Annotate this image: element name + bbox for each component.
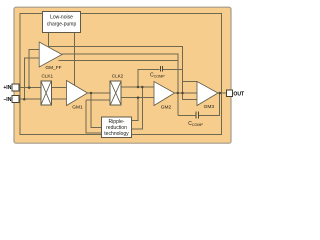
op-amp GM1 (67, 81, 88, 106)
wire CLK2 lower input (86, 100, 110, 133)
wire charge-pump to GM1 (74, 33, 76, 86)
capacitor C_COMP top plates (160, 66, 162, 72)
node junction top rail to ripple-reduction tap (141, 86, 144, 89)
node junction +IN rail to GM_FF riser (28, 86, 31, 89)
svg-text:GM_FF: GM_FF (45, 65, 61, 71)
svg-text:+IN: +IN (3, 85, 11, 91)
pin OUT (227, 90, 233, 97)
wire A charge-pump branch to GM3 lower input (49, 46, 198, 99)
wire GM_FF output to GM2 output node and lower comp cap (62, 54, 178, 115)
svg-text:Low-noise: Low-noise (50, 14, 73, 20)
svg-text:GM2: GM2 (161, 105, 172, 111)
svg-text:CLK1: CLK1 (42, 73, 54, 78)
ripple-reduction technology box (102, 117, 132, 137)
node junction bottom rail to ripple-reduction tap (137, 96, 140, 99)
chip outline (20, 13, 221, 134)
wire charge-pump to GM_FF (48, 33, 50, 47)
tan panel (14, 7, 231, 143)
wire branch to GM3 top corner (183, 81, 198, 83)
svg-text:charge-pump: charge-pump (47, 21, 77, 27)
chopper CLK2 (110, 73, 123, 105)
chopper CLK1 (41, 73, 54, 105)
wire riser -IN to GM_FF lower input (24, 58, 39, 99)
wire top rail to ripple box (130, 87, 143, 129)
svg-text:CLK2: CLK2 (112, 73, 124, 78)
wire GM1 output to CLK2 (88, 92, 111, 94)
wire top comp cap leads (138, 70, 183, 88)
wire GM_FF auxiliary output joining feedforward vertical (59, 59, 178, 61)
wire rail1 +IN to CLK1 (19, 87, 67, 89)
svg-text:–IN: –IN (3, 97, 11, 103)
wire riser +IN to GM_FF upper input (29, 50, 39, 88)
wire rail2 -IN to CLK1 (19, 98, 67, 100)
wire CLK2 to GM2 rail top (121, 86, 154, 88)
wire bottom comp cap leads (178, 93, 220, 115)
node junction GM1 output to ripple-reduction tap (90, 92, 93, 95)
svg-text:technology: technology (104, 131, 129, 137)
op-amp GM_FF (39, 42, 62, 67)
node junction GM2 output with GM_FF feedforward (177, 92, 180, 95)
svg-text:OUT: OUT (233, 91, 245, 97)
wire GM3 output to OUT pin (218, 92, 227, 94)
node junction GM2 output with charge-pump branch (181, 92, 184, 95)
low-noise charge-pump box (42, 11, 80, 32)
node junction top rail to C_COMP riser (137, 86, 140, 89)
pin -IN (12, 96, 19, 103)
wire CLK2 to GM2 rail bottom (121, 97, 154, 99)
op-amp GM2 (154, 82, 175, 106)
capacitor C_COMP bottom plates (196, 112, 198, 119)
svg-text:GM3: GM3 (204, 104, 215, 110)
svg-text:GM1: GM1 (72, 105, 83, 111)
op-amp GM3 (197, 82, 218, 106)
wire GM1 node to ripple box (91, 93, 102, 127)
wire bottom rail to ripple box (130, 98, 138, 121)
wire GM2 output to GM3 (175, 92, 198, 94)
pin +IN (12, 84, 19, 91)
node junction GM3 output with bottom C_COMP (219, 92, 222, 95)
node junction -IN rail to GM_FF riser (23, 98, 26, 101)
